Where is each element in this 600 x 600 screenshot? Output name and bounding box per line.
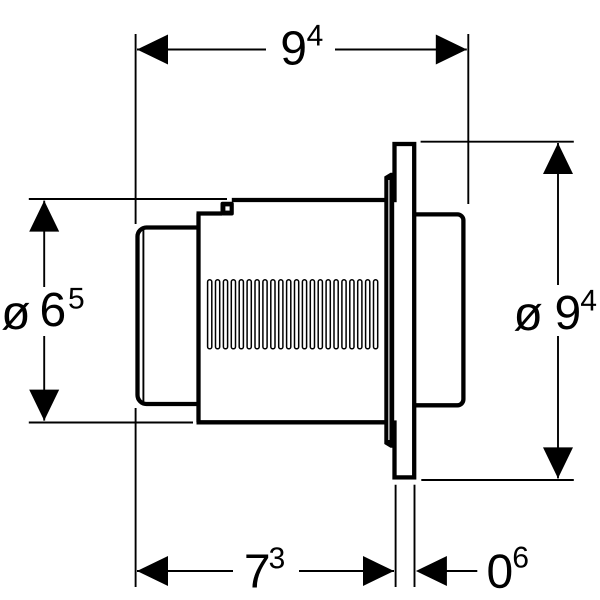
label 94 — [283, 31, 305, 65]
dim ø65 line lower segment — [43, 336, 45, 421]
cylinder top edge — [232, 198, 387, 202]
label ø65 — [2, 303, 29, 330]
dim 94 line right segment — [335, 49, 467, 51]
dim 06 arrow — [416, 556, 447, 586]
cylinder bottom edge — [197, 420, 388, 424]
cylinder shoulder edge — [197, 211, 223, 215]
dim ø94 up arrow — [543, 143, 573, 174]
dim 06 tail line — [446, 570, 477, 572]
dim 73 line right segment — [299, 570, 394, 572]
gasket plate — [384, 173, 393, 448]
dim ø65 bottom extension line — [29, 422, 193, 424]
dim ø65 down arrow — [29, 390, 59, 421]
dim ø65 up arrow — [29, 201, 59, 232]
label 06 — [488, 554, 511, 588]
dim 94 left arrow — [137, 35, 168, 65]
dim 94 line left segment — [137, 49, 266, 51]
label 73 — [246, 554, 268, 587]
flange plate — [395, 144, 415, 477]
dim ø94 line lower segment — [557, 336, 559, 478]
dim 73 right arrow — [363, 556, 394, 586]
dim 94 right extension line — [467, 34, 469, 204]
thread ribs — [208, 280, 378, 349]
dim 73 left extension line — [135, 408, 137, 587]
dim 06 extension line (flange rear) — [414, 485, 416, 587]
flange left edge hidden behind cylinder — [394, 202, 399, 420]
dim ø65 top extension line — [29, 198, 227, 200]
cylinder rear edge — [385, 198, 389, 424]
back housing — [412, 214, 463, 405]
dim ø94 top extension line — [421, 141, 574, 143]
button front (push button) — [138, 228, 199, 405]
clip hook notch hole — [225, 206, 229, 210]
button/body step edge — [196, 214, 200, 423]
dim 73 left arrow — [137, 556, 168, 586]
dim 73 line left segment — [137, 570, 233, 572]
gasket split line — [388, 180, 390, 440]
clip hook block — [221, 202, 234, 216]
button face inner edge line — [142, 230, 144, 402]
dim ø94 line upper segment — [557, 143, 559, 285]
dim ø94 bottom extension line — [421, 479, 574, 481]
label ø94 — [515, 304, 542, 331]
dim 94 right arrow — [436, 35, 467, 65]
dim 94 left extension line — [135, 34, 137, 224]
dim ø65 line upper segment — [43, 201, 45, 287]
dim ø94 down arrow — [543, 447, 573, 478]
dim 73/06 shared extension line (flange front) — [395, 485, 397, 587]
